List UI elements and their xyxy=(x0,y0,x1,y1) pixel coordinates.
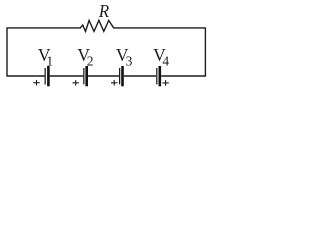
svg-text:1: 1 xyxy=(46,53,53,68)
svg-text:4: 4 xyxy=(162,53,169,68)
svg-text:3: 3 xyxy=(126,53,133,68)
svg-text:2: 2 xyxy=(87,53,94,68)
svg-text:R: R xyxy=(98,1,110,21)
